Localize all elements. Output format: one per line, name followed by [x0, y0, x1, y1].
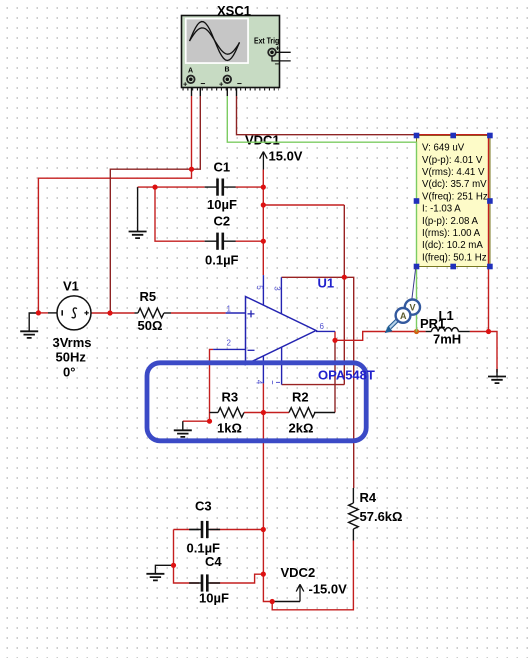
svg-text:I(p-p): 2.08 A: I(p-p): 2.08 A — [422, 216, 479, 227]
svg-text:R3: R3 — [222, 390, 239, 405]
op-amp output stub pin6 — [316, 330, 335, 332]
value 1k ohm — [217, 421, 242, 436]
wire: rail to pin3 feed (y=205) — [263, 204, 344, 206]
svg-text:+: + — [219, 79, 224, 88]
node: output to R2 junction — [332, 338, 337, 343]
wire: C4 right jog to rail — [210, 574, 263, 583]
value 7mH — [433, 332, 461, 347]
label U1 — [318, 276, 335, 291]
wire: C2 net from ground riser — [155, 187, 263, 241]
svg-text:R4: R4 — [360, 490, 377, 505]
label XSC1 — [217, 3, 251, 19]
ground near V1 — [20, 331, 38, 338]
op-amp plus input mark — [248, 310, 255, 317]
node: C3 right on rail — [261, 527, 266, 532]
svg-text:57.6kΩ: 57.6kΩ — [360, 509, 403, 524]
svg-text:7mH: 7mH — [433, 332, 461, 347]
value 2k ohm — [289, 421, 314, 436]
svg-text:50Hz: 50Hz — [56, 350, 87, 365]
pin number 6 — [320, 322, 325, 331]
svg-text:A: A — [188, 68, 193, 75]
node: L1 output junction — [486, 329, 491, 334]
capacitor C3 — [189, 521, 220, 538]
wire: scope A- tap stub (black) — [194, 79, 200, 96]
svg-text:OPA548T: OPA548T — [318, 368, 375, 383]
ground near C3 — [146, 574, 164, 581]
label OPA548T — [318, 368, 375, 383]
wire: B- to probe box right edge — [237, 96, 489, 135]
wire: pin3 horizontal to R4 rail — [281, 277, 353, 488]
label R2 — [292, 390, 309, 405]
ground near L1 — [488, 377, 506, 384]
svg-text:VDC1: VDC1 — [245, 133, 280, 148]
pin E/S mark — [273, 381, 281, 385]
wire: C1 net horizontal — [138, 187, 264, 231]
resistor R5 — [135, 308, 172, 318]
op-amp pin1 stub — [226, 312, 246, 314]
probe PR1 arrow — [385, 320, 398, 333]
node: rail to pin3 feed junction — [261, 202, 266, 207]
pin number 5 (rotated) — [255, 285, 264, 290]
svg-text:A: A — [400, 311, 407, 321]
probe box selection handles — [414, 133, 493, 270]
svg-text:3: 3 — [272, 286, 281, 291]
op-amp minus input mark — [248, 349, 255, 351]
svg-text:4: 4 — [255, 380, 264, 385]
label Ext Trig — [254, 36, 279, 45]
value 50 ohm — [138, 318, 163, 333]
value 0.1uF — [187, 541, 221, 556]
node: R3 ground junction — [207, 419, 212, 424]
wire: A+ to V1 ground node — [38, 96, 191, 313]
svg-text:3Vrms: 3Vrms — [53, 335, 92, 350]
capacitor C4 — [189, 574, 220, 591]
op-amp pin5 stub — [262, 275, 264, 305]
svg-text:R5: R5 — [140, 289, 157, 304]
node: V1 plus junction — [107, 310, 112, 315]
resistor R3 — [218, 408, 244, 418]
node: V1 ground junction — [36, 310, 41, 315]
svg-text:I(rms): 1.00 A: I(rms): 1.00 A — [422, 228, 481, 239]
wire: A- to V1 plus node — [110, 96, 200, 313]
svg-text:XSC1: XSC1 — [217, 3, 251, 19]
ground near R3 — [174, 430, 192, 437]
AC source V1 — [57, 296, 91, 330]
XSC1 screen — [185, 18, 249, 64]
svg-text:-15.0V: -15.0V — [309, 582, 348, 597]
probe leader line — [412, 267, 416, 300]
svg-text:−: − — [237, 78, 242, 88]
node: pin3 feed junction — [342, 275, 347, 280]
svg-text:B: B — [225, 67, 230, 74]
node: C4 right on rail — [261, 572, 266, 577]
op-amp pin4 stub — [262, 356, 264, 384]
label L1 — [439, 308, 454, 323]
svg-text:Ext Trig: Ext Trig — [254, 36, 279, 45]
probe readout box PR1 — [417, 136, 491, 267]
label C1 — [214, 160, 231, 175]
node: C1 right on rail — [261, 185, 266, 190]
label R3 — [222, 390, 239, 405]
terminal A of XSC1 — [183, 68, 206, 89]
wire: VDC1 rail down (V+ rail) — [262, 170, 264, 276]
wire: V- rail below opamp (pin4 down to VDC2) — [263, 383, 272, 601]
value 3Vrms 50Hz 0deg — [53, 335, 92, 380]
svg-text:10µF: 10µF — [207, 197, 237, 212]
svg-text:−: − — [201, 78, 206, 88]
wire: C3 net horizontal — [174, 529, 264, 531]
svg-text:10µF: 10µF — [199, 591, 229, 606]
svg-text:C1: C1 — [214, 160, 231, 175]
wire: V1 plus to R5 to opamp pin1 — [91, 312, 226, 314]
value -15.0V — [309, 582, 348, 597]
ground near C1 — [129, 232, 147, 239]
label C4 — [205, 554, 222, 569]
svg-text:VDC2: VDC2 — [281, 565, 316, 580]
wire: scope B- tap stub (black) — [230, 79, 237, 96]
svg-text:R2: R2 — [292, 390, 309, 405]
wire: V1 left to ground junction — [29, 313, 57, 331]
svg-text:I(freq): 50.1 Hz: I(freq): 50.1 Hz — [422, 252, 487, 263]
node: VDC2 junction — [270, 599, 275, 604]
svg-text:5: 5 — [255, 285, 264, 290]
svg-text:V(dc): 35.7 mV: V(dc): 35.7 mV — [422, 179, 487, 190]
capacitor C2 — [205, 233, 236, 250]
wire: R3-R2 feedback wire — [210, 412, 336, 414]
node: A wires crossing junction — [189, 167, 194, 172]
svg-text:U1: U1 — [318, 276, 335, 291]
value 0.1uF — [205, 253, 239, 268]
svg-text:I(dc): 10.2 mA: I(dc): 10.2 mA — [422, 240, 483, 251]
svg-text:PR1: PR1 — [420, 316, 445, 331]
probe PR1 V circle — [405, 300, 420, 315]
wire: probe box top edge red overlap — [417, 135, 489, 267]
power connector VDC2 arrow — [296, 584, 304, 601]
label R5 — [140, 289, 157, 304]
svg-text:C2: C2 — [214, 214, 231, 229]
svg-text:0°: 0° — [63, 365, 75, 380]
svg-text:50Ω: 50Ω — [138, 318, 163, 333]
wire: output node to R2 top — [334, 340, 336, 412]
node: V- rail crosses feedback wire — [261, 410, 266, 415]
wire: opamp output jog to L1 — [335, 331, 426, 340]
capacitor C1 — [205, 179, 236, 196]
annotation blue rounded rectangle highlight — [147, 363, 366, 441]
wire: B+ green to output node — [227, 96, 416, 332]
op-amp pin3 stub — [280, 277, 282, 314]
label VDC2 — [281, 565, 316, 580]
XSC1 screen waveform B — [190, 28, 240, 54]
node: C2 right on rail — [261, 239, 266, 244]
svg-text:2kΩ: 2kΩ — [289, 421, 314, 436]
power connector VDC1 arrow — [260, 152, 268, 170]
svg-text:15.0V: 15.0V — [269, 149, 303, 164]
label C2 — [214, 214, 231, 229]
svg-text:0.1µF: 0.1µF — [205, 253, 239, 268]
instrument XSC1 oscilloscope body — [182, 16, 280, 90]
svg-text:V(p-p): 4.01 V: V(p-p): 4.01 V — [422, 155, 483, 166]
value 10uF — [199, 591, 229, 606]
wire: scope A+ stub (black) — [191, 83, 193, 96]
svg-text:−: − — [275, 60, 280, 69]
svg-text:I: -1.03 A: I: -1.03 A — [422, 204, 461, 215]
svg-text:2: 2 — [227, 339, 232, 348]
terminal Ext Trig — [268, 46, 291, 69]
op-amp pin2 stub — [213, 348, 245, 350]
value 10uF — [207, 197, 237, 212]
svg-text:C3: C3 — [195, 499, 212, 514]
wire: VDC2 arrow stub (black) — [272, 601, 300, 603]
svg-text:V1: V1 — [63, 279, 79, 294]
svg-text:6: 6 — [320, 322, 325, 331]
value 15.0V — [269, 149, 303, 164]
wire: VDC2 bottom run to R4 — [272, 541, 353, 610]
svg-text:V: 649 uV: V: 649 uV — [422, 143, 465, 154]
probe PR1 A circle — [396, 308, 411, 323]
svg-text:V(freq): 251 Hz: V(freq): 251 Hz — [422, 191, 488, 202]
svg-text:C4: C4 — [205, 554, 222, 569]
pin number 2 — [227, 339, 232, 348]
wire: probe box right edge down to output node — [488, 135, 490, 332]
pin number 3 (rotated) — [272, 286, 281, 291]
op-amp E/S pin stub — [281, 347, 283, 384]
svg-text:1: 1 — [227, 305, 232, 314]
wire: L1 right to ground — [470, 332, 497, 377]
label V1 — [63, 279, 79, 294]
label C3 — [195, 499, 212, 514]
svg-text:+: + — [183, 79, 188, 88]
inductor L1 — [426, 328, 470, 332]
node: C3/C4 ground junction — [171, 563, 176, 568]
label R4 — [360, 490, 377, 505]
node: green probe tap junction — [414, 329, 419, 334]
svg-text:+: + — [276, 46, 280, 53]
terminal B of XSC1 — [219, 67, 242, 89]
value 57.6k ohm — [360, 509, 403, 524]
label PR1 — [420, 316, 445, 331]
wire: E/S pin wire — [282, 384, 345, 386]
label VDC1 — [245, 133, 280, 148]
svg-text:1kΩ: 1kΩ — [217, 421, 242, 436]
op-amp U1 triangle — [246, 297, 317, 365]
pin number 4 (rotated) — [255, 380, 264, 385]
XSC1 screen waveform A — [190, 22, 240, 61]
wire: pin3 vertical feed — [343, 205, 345, 385]
resistor R4 — [349, 488, 359, 541]
wire: scope B+ stub (black) — [226, 83, 228, 96]
wire: C3/C4 left riser with ground branch — [155, 530, 199, 584]
svg-text:V(rms): 4.41 V: V(rms): 4.41 V — [422, 167, 485, 178]
node: C1 left junction — [152, 185, 157, 190]
pin number 1 — [227, 305, 232, 314]
wire: pin2 to R3 left — [183, 349, 213, 430]
resistor R2 — [289, 408, 315, 418]
